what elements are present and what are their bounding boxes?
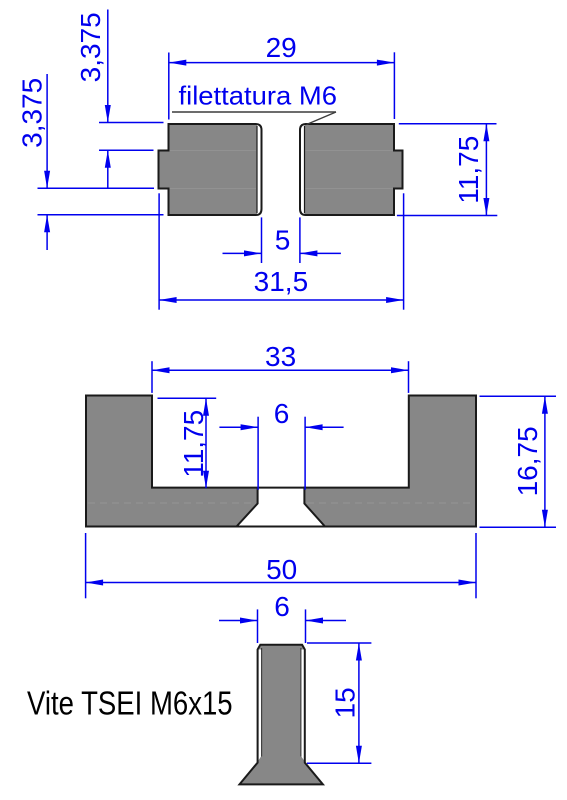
svg-text:16,75: 16,75 xyxy=(512,426,543,496)
channel left part xyxy=(86,396,258,527)
svg-text:5: 5 xyxy=(275,225,291,256)
screw thread relief right xyxy=(301,650,304,761)
dimension 33 xyxy=(152,361,409,393)
right block chamfer line xyxy=(304,126,306,213)
right block outline xyxy=(300,124,403,215)
dimension 5 (gap) xyxy=(223,217,341,263)
leader filettatura M6 xyxy=(172,112,336,125)
svg-text:6: 6 xyxy=(274,398,290,429)
svg-text:15: 15 xyxy=(330,687,361,718)
dimension 11,75 top figure right xyxy=(397,124,497,216)
left block fill xyxy=(159,124,258,215)
screw thread relief left xyxy=(259,650,262,761)
left block outline xyxy=(159,124,262,215)
bottom edge across countersink xyxy=(237,526,326,528)
tangent line web xyxy=(88,502,255,504)
svg-text:11,75: 11,75 xyxy=(178,410,209,478)
hole top edge xyxy=(258,487,305,489)
screw body xyxy=(240,645,323,785)
svg-text:filettatura M6: filettatura M6 xyxy=(179,81,338,111)
dimension 6 middle xyxy=(219,417,343,490)
dimension 31,5 xyxy=(159,193,404,309)
channel right part xyxy=(304,396,476,527)
dimension 6 bottom xyxy=(219,609,346,643)
right block fill xyxy=(305,124,403,215)
svg-text:11,75: 11,75 xyxy=(453,136,484,204)
thread minor line left xyxy=(261,648,263,757)
dimension 50 xyxy=(86,533,476,598)
svg-text:29: 29 xyxy=(266,32,297,63)
dimension 16,75 xyxy=(480,396,557,527)
svg-text:31,5: 31,5 xyxy=(254,266,309,297)
svg-text:50: 50 xyxy=(266,554,297,585)
dimension 29 xyxy=(169,52,395,119)
dimension 3,375 upper (block top to tab top) xyxy=(99,10,164,188)
dimension 11,75 slot depth xyxy=(158,398,217,488)
svg-text:3,375: 3,375 xyxy=(16,78,47,148)
svg-text:6: 6 xyxy=(274,591,290,622)
svg-text:Vite TSEI M6x15: Vite TSEI M6x15 xyxy=(27,686,233,723)
tangent lines left block xyxy=(170,151,257,189)
dimension 15 xyxy=(307,643,371,763)
svg-text:3,375: 3,375 xyxy=(75,12,106,82)
tangent lines right block xyxy=(306,151,394,189)
svg-text:33: 33 xyxy=(265,341,296,372)
thread minor line right xyxy=(300,648,302,757)
left block chamfer line xyxy=(256,126,258,213)
dimension 3,375 lower (tab bottom to block bottom) xyxy=(38,74,164,250)
